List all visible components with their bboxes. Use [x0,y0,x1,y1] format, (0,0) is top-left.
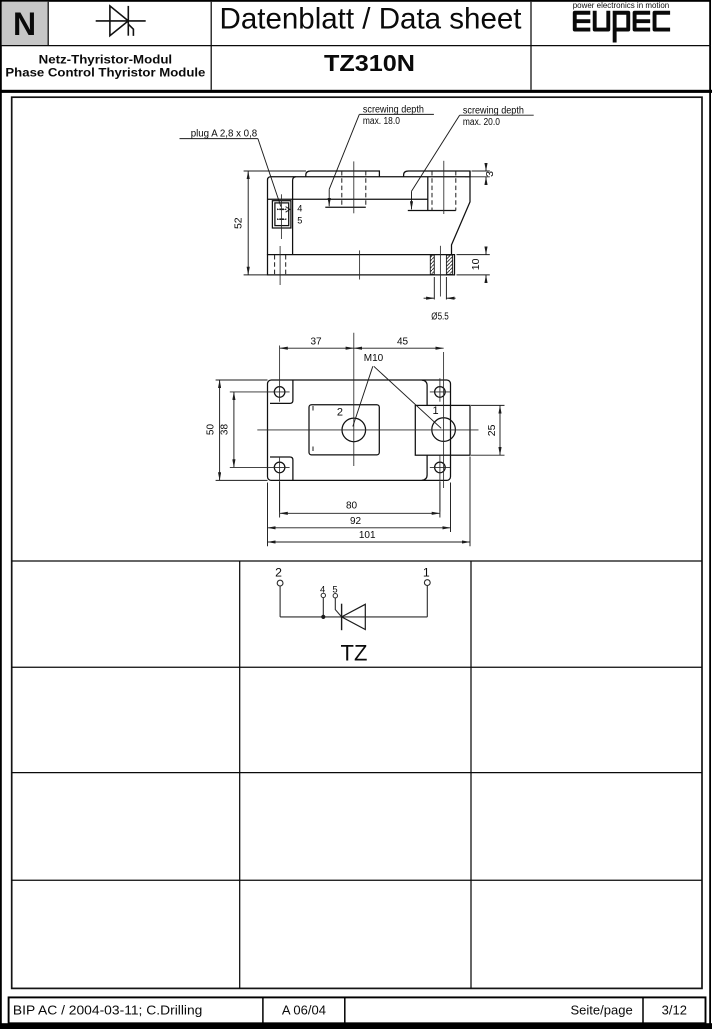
table line row2 [12,666,702,668]
svg-text:3/12: 3/12 [662,1003,687,1018]
body seam line [268,198,428,200]
svg-text:max. 18.0: max. 18.0 [363,116,400,127]
thyristor logo symbol: gate lead [128,24,133,36]
screwing depth left underline [359,113,434,115]
footer box [9,997,706,1023]
wire main horizontal [280,616,427,618]
gate 5 circle [333,594,337,598]
logo letter c [655,13,671,30]
dia 5.5 extension right [445,277,447,300]
svg-text:Seite/page: Seite/page [571,1003,633,1018]
dim 3 extensions [472,170,490,172]
terminal 1 tab [415,405,470,455]
header bottom thick line [0,90,712,93]
left mounting hole hidden wall right [285,255,287,275]
thyristor V1 cathode bar [341,604,343,631]
mounting hole top-left [274,387,285,398]
terminal 1 vertical centerline [443,352,445,488]
svg-text:25: 25 [486,424,498,436]
dim 25 line [499,405,501,455]
thyristor logo symbol: cathode bar [127,6,129,36]
logo letter p [613,11,629,43]
svg-text:Datenblatt / Data sheet: Datenblatt / Data sheet [220,2,522,35]
dim 25 extensions [471,404,505,406]
header vertical line right of title [530,2,532,90]
logo letter e [575,13,591,30]
svg-text:N: N [13,6,36,42]
table column divider right [470,561,472,988]
dia 5.5 extension left [433,277,435,300]
screw pocket 1 hidden wall left [341,171,343,207]
dia 5.5 arrow right [446,297,455,299]
mounting hole top-right cross [430,391,450,393]
header vertical line after N box [47,2,49,46]
terminal block 1 outline [306,171,380,177]
thyristor logo symbol: triangle [110,6,128,36]
table column divider left [239,561,241,988]
svg-text:TZ310N: TZ310N [324,50,415,76]
right hole hatch right strip [446,255,452,274]
screw pocket 1 bottom [325,206,366,208]
dim 52 bottom extension [244,274,268,276]
table line row3 [12,772,702,774]
svg-text:power electronics in motion: power electronics in motion [573,0,670,10]
wire terminal 2 stub [279,586,281,617]
right hole hatch left strip [430,255,434,274]
footer divider 2 [344,997,346,1023]
dim 10 arrows [485,247,487,255]
terminal 2 circle [277,580,283,586]
svg-text:3: 3 [484,171,496,177]
thyristor logo symbol: anode line [96,20,146,22]
SCHEMATIC [275,565,430,665]
dim 92 extensions [267,483,269,533]
header vertical line left of title [210,2,212,90]
mounting hole bottom-left [274,462,285,473]
TOP VIEW [205,333,504,547]
svg-text:52: 52 [232,217,244,229]
dim 92 line [268,527,451,529]
svg-text:BIP AC / 2004-03-11; C.Drilli: BIP AC / 2004-03-11; C.Drilling [13,1003,203,1018]
right hole centerline [439,246,441,297]
corner ear line bottom-left [270,457,293,480]
svg-text:plug A 2,8 x 0,8: plug A 2,8 x 0,8 [191,129,258,140]
FOOTER [9,997,706,1023]
mounting hole top-left cross [230,391,290,393]
plug pin 5 [277,218,286,220]
svg-text:5: 5 [297,216,302,226]
dim 38 line [233,392,235,468]
center block hidden edge dashes [312,406,314,413]
screwing depth right leader [412,115,460,191]
svg-text:101: 101 [359,530,376,541]
plug leader line [258,139,281,207]
svg-text:38: 38 [220,424,231,436]
svg-text:4: 4 [320,583,325,594]
svg-text:TZ: TZ [341,641,368,666]
corner ear line bottom-right [422,455,427,480]
mounting hole bottom-left cross [230,466,290,468]
bolt 2 centerline [443,161,445,214]
wire terminal 1 stub [426,586,428,617]
svg-text:Phase Control Thyristor Module: Phase Control Thyristor Module [5,66,205,80]
left mounting hole hidden wall left [274,255,276,275]
mounting hole bottom-right cross [430,466,450,468]
TABLE GRID [12,561,702,988]
dim 80 extensions [279,482,281,518]
svg-text:10: 10 [470,258,482,270]
terminal 2 vertical centerline [353,333,355,466]
center raised block [309,405,379,455]
screw pocket 1 hidden wall right [365,171,367,207]
module vertical centerline on base [359,250,361,279]
M10 leader to terminal 2 [353,366,373,426]
mounting hole top-right [435,387,446,398]
svg-text:1: 1 [423,565,430,579]
dim 37 45 line [280,347,354,349]
HEADER [0,0,712,93]
module top edge [271,176,470,178]
plug centerline [280,194,282,239]
module body left edge [268,177,272,255]
svg-text:M10: M10 [364,353,384,364]
svg-text:2: 2 [337,407,343,419]
svg-text:5: 5 [332,583,337,594]
screw pocket 2 bottom [408,210,456,212]
svg-text:A 06/04: A 06/04 [282,1003,326,1018]
svg-text:37: 37 [310,336,322,347]
table line row4 [12,879,702,881]
svg-text:80: 80 [346,501,358,512]
dim 50 line [219,380,221,480]
dia 5.5 arrow left [424,297,435,299]
plug leader chevron [286,207,290,213]
svg-text:max. 20.0: max. 20.0 [463,117,500,128]
terminal block 2 outline [404,171,470,177]
terminal 1 circle [424,580,430,586]
terminal 1 hole [432,418,456,442]
dim 101 extensions [267,532,269,546]
dim 52 top extension [244,170,306,172]
header row divider [1,45,711,47]
footer divider 1 [262,997,264,1023]
dim 10 extensions [457,254,490,256]
screwing depth right depth arrow [411,191,413,209]
plug pin 4 [277,208,286,210]
footer divider 3 [642,997,644,1023]
module base plate outline [268,255,455,275]
screwing depth left leader [329,114,359,189]
left mounting hole centerline [279,246,281,285]
corner ear line top-left [270,380,293,403]
N box gray background [2,2,48,46]
SIDE VIEW [180,105,534,323]
svg-text:2: 2 [275,565,282,579]
svg-text:Ø5.5: Ø5.5 [431,312,449,323]
logo letter e [635,13,651,30]
screwing depth left depth arrow [328,189,330,206]
bolt 1 centerline [353,161,355,213]
gate 4 circle [321,593,325,597]
M10 leader to terminal 1 [374,366,441,428]
eupec logotype [575,11,670,43]
junction node dot [321,615,325,619]
svg-text:45: 45 [397,336,409,347]
svg-text:Netz-Thyristor-Modul: Netz-Thyristor-Modul [39,52,173,66]
svg-text:1: 1 [433,405,439,417]
screw pocket 2 wall [427,177,429,211]
screw pocket 2 hidden wall right [455,171,457,211]
dim 52 line [247,171,249,275]
page bottom thick bar [0,1023,712,1029]
dim 3 arrows [485,164,487,172]
svg-text:50: 50 [205,424,216,436]
corner ear line top-right [422,380,427,405]
terminal 2 hole [342,418,366,442]
logo letter u [595,11,609,30]
extension from bottom-right hole for dim 80 [439,456,441,512]
mounting hole bottom-right [435,462,446,473]
dim 50 extensions [216,379,268,381]
plug connector outer housing [272,201,291,228]
plug connector inner housing [275,203,289,226]
horizontal centerline [257,429,478,431]
thyristor V1 triangle [342,604,366,629]
plug tower right wall [293,177,296,255]
dim 80 line [280,512,440,514]
module body outline [268,380,451,480]
plug label underline [180,138,258,140]
wire gate 4 drop [322,598,324,617]
svg-text:4: 4 [297,204,302,214]
dim 101 line [268,541,471,543]
body right edge and slant [452,171,471,255]
svg-text:92: 92 [350,516,362,527]
wire gate 5 lead [335,598,341,617]
screw pocket 2 hidden wall left [431,171,433,211]
table line row1 top [12,560,702,562]
screwing depth right underline [460,114,534,116]
